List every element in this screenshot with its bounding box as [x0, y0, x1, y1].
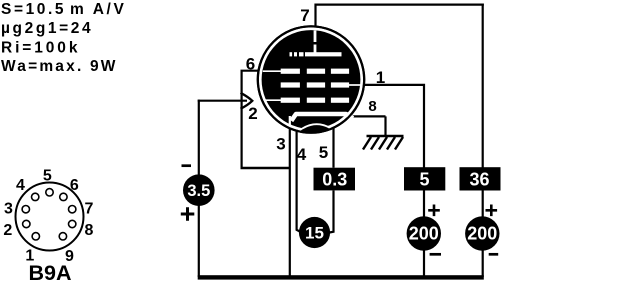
wire 3.5 battery down to bottom bus [198, 206, 200, 278]
B9A pin 8 hole [69, 220, 76, 227]
svg-text:8: 8 [85, 222, 94, 239]
wire 5 box to 200 voltmeter [423, 191, 425, 218]
tube outline redraw [258, 26, 364, 132]
voltmeter 200 V screen (black circle) [407, 216, 441, 250]
black patch under heater dome [295, 124, 337, 141]
grid g1 row (pin 2) dashes [281, 98, 300, 103]
svg-text:S=10.5 m A/V: S=10.5 m A/V [1, 1, 126, 18]
svg-text:5: 5 [419, 170, 429, 190]
svg-text:B9A: B9A [28, 261, 71, 284]
wire 36 box to right 200 voltmeter [482, 191, 484, 218]
plus sign of 3.5 battery [181, 207, 195, 220]
ammeter box 0.3 A heater current [314, 168, 356, 191]
wire 0.3 box down then left into 15 circle [330, 191, 334, 233]
anode plate bar (white dashes) [290, 52, 293, 56]
svg-text:Wa=max. 9W: Wa=max. 9W [1, 58, 118, 75]
ground earth symbol bar [367, 135, 404, 138]
svg-text:3.5: 3.5 [187, 182, 210, 200]
B9A pin 1 hole [32, 233, 39, 240]
B9A base outline circle [16, 183, 84, 251]
wire HT right rail down to 36 box [482, 4, 484, 168]
svg-text:4: 4 [16, 177, 25, 194]
svg-text:7: 7 [85, 201, 94, 218]
bottom bus chassis line [198, 275, 484, 279]
svg-text:5: 5 [319, 143, 328, 162]
minus sign of 3.5 battery [182, 164, 192, 167]
wire screen g2: pin 1 right then down to 5 box [362, 84, 424, 168]
wire anode top: pin 7 to HT rail [314, 5, 483, 27]
wire heater pin 5 down to 0.3 box [332, 128, 334, 168]
grid g3 row (pin 6) dashes [281, 69, 300, 74]
svg-text:1: 1 [376, 68, 385, 87]
svg-text:8: 8 [368, 98, 376, 115]
svg-text:3: 3 [4, 201, 13, 218]
plus sign left 200 [428, 205, 440, 217]
B9A pin 9 hole [59, 233, 66, 240]
wire cathode pin 3 down to bottom bus [289, 129, 291, 278]
heater dome arc (white) [296, 124, 336, 133]
anode lead from pin 7 (white) [314, 31, 317, 53]
svg-text:6: 6 [70, 177, 79, 194]
svg-text:7: 7 [300, 6, 309, 25]
svg-text:µg2g1=24: µg2g1=24 [1, 20, 93, 37]
plus sign right 200 [486, 205, 498, 217]
wire pin 8 to ground [349, 116, 386, 135]
wire heater pin 4 down to 15 circle [297, 130, 300, 232]
wire right 200 voltmeter to bottom bus [482, 250, 484, 277]
svg-text:6: 6 [246, 55, 255, 74]
B9A pin 3 hole [22, 206, 29, 213]
grid g2 lead to right edge [349, 84, 362, 86]
grid g3 lead to left edge [263, 70, 281, 72]
ammeter box 5 mA screen current [404, 167, 445, 190]
minus sign right 200 [489, 253, 499, 256]
voltmeter 200 V anode (black circle) [465, 216, 499, 250]
grid g2 row (pin 1) dashes [281, 82, 300, 87]
wire 200 voltmeter to bottom bus [423, 250, 425, 277]
svg-text:200: 200 [409, 224, 439, 244]
wire pin 6 to pin 3 junction [241, 167, 290, 169]
cathode k (white bent bar) [291, 114, 353, 121]
wire grid input horizontal [198, 100, 247, 102]
B9A pin 7 hole [69, 206, 76, 213]
B9A pin 4 hole [32, 193, 39, 200]
ground earth hatches [363, 137, 403, 150]
B9A pin 5 hole [46, 189, 53, 196]
wire pin 6 (g3) stub and down [242, 70, 258, 168]
svg-text:5: 5 [43, 168, 52, 185]
voltmeter 15 V heater (black circle) [299, 217, 330, 248]
wire left column input down to 3.5 battery [198, 100, 200, 175]
B9A pin 6 hole [60, 193, 67, 200]
input arrowhead at grid pin 2 [241, 93, 253, 109]
minus sign left 200 [430, 253, 441, 256]
ammeter box 36 mA anode current [460, 167, 501, 190]
svg-text:3: 3 [276, 135, 285, 154]
tube V1 envelope outer circle [258, 26, 364, 132]
svg-text:Ri=100k: Ri=100k [1, 40, 80, 57]
svg-text:200: 200 [467, 224, 497, 244]
svg-text:36: 36 [469, 170, 489, 190]
svg-text:2: 2 [3, 222, 12, 239]
svg-text:15: 15 [305, 224, 324, 243]
battery 3.5 V grid bias (black circle) [183, 174, 215, 206]
svg-text:4: 4 [297, 145, 307, 164]
cathode lead to pin 3 (white) [289, 116, 291, 128]
B9A pin 2 hole [23, 220, 30, 227]
tube V1 inner black disc [262, 30, 361, 129]
grid g1 lead to left edge [263, 99, 281, 101]
svg-text:2: 2 [248, 104, 257, 123]
svg-text:0.3: 0.3 [322, 170, 347, 190]
